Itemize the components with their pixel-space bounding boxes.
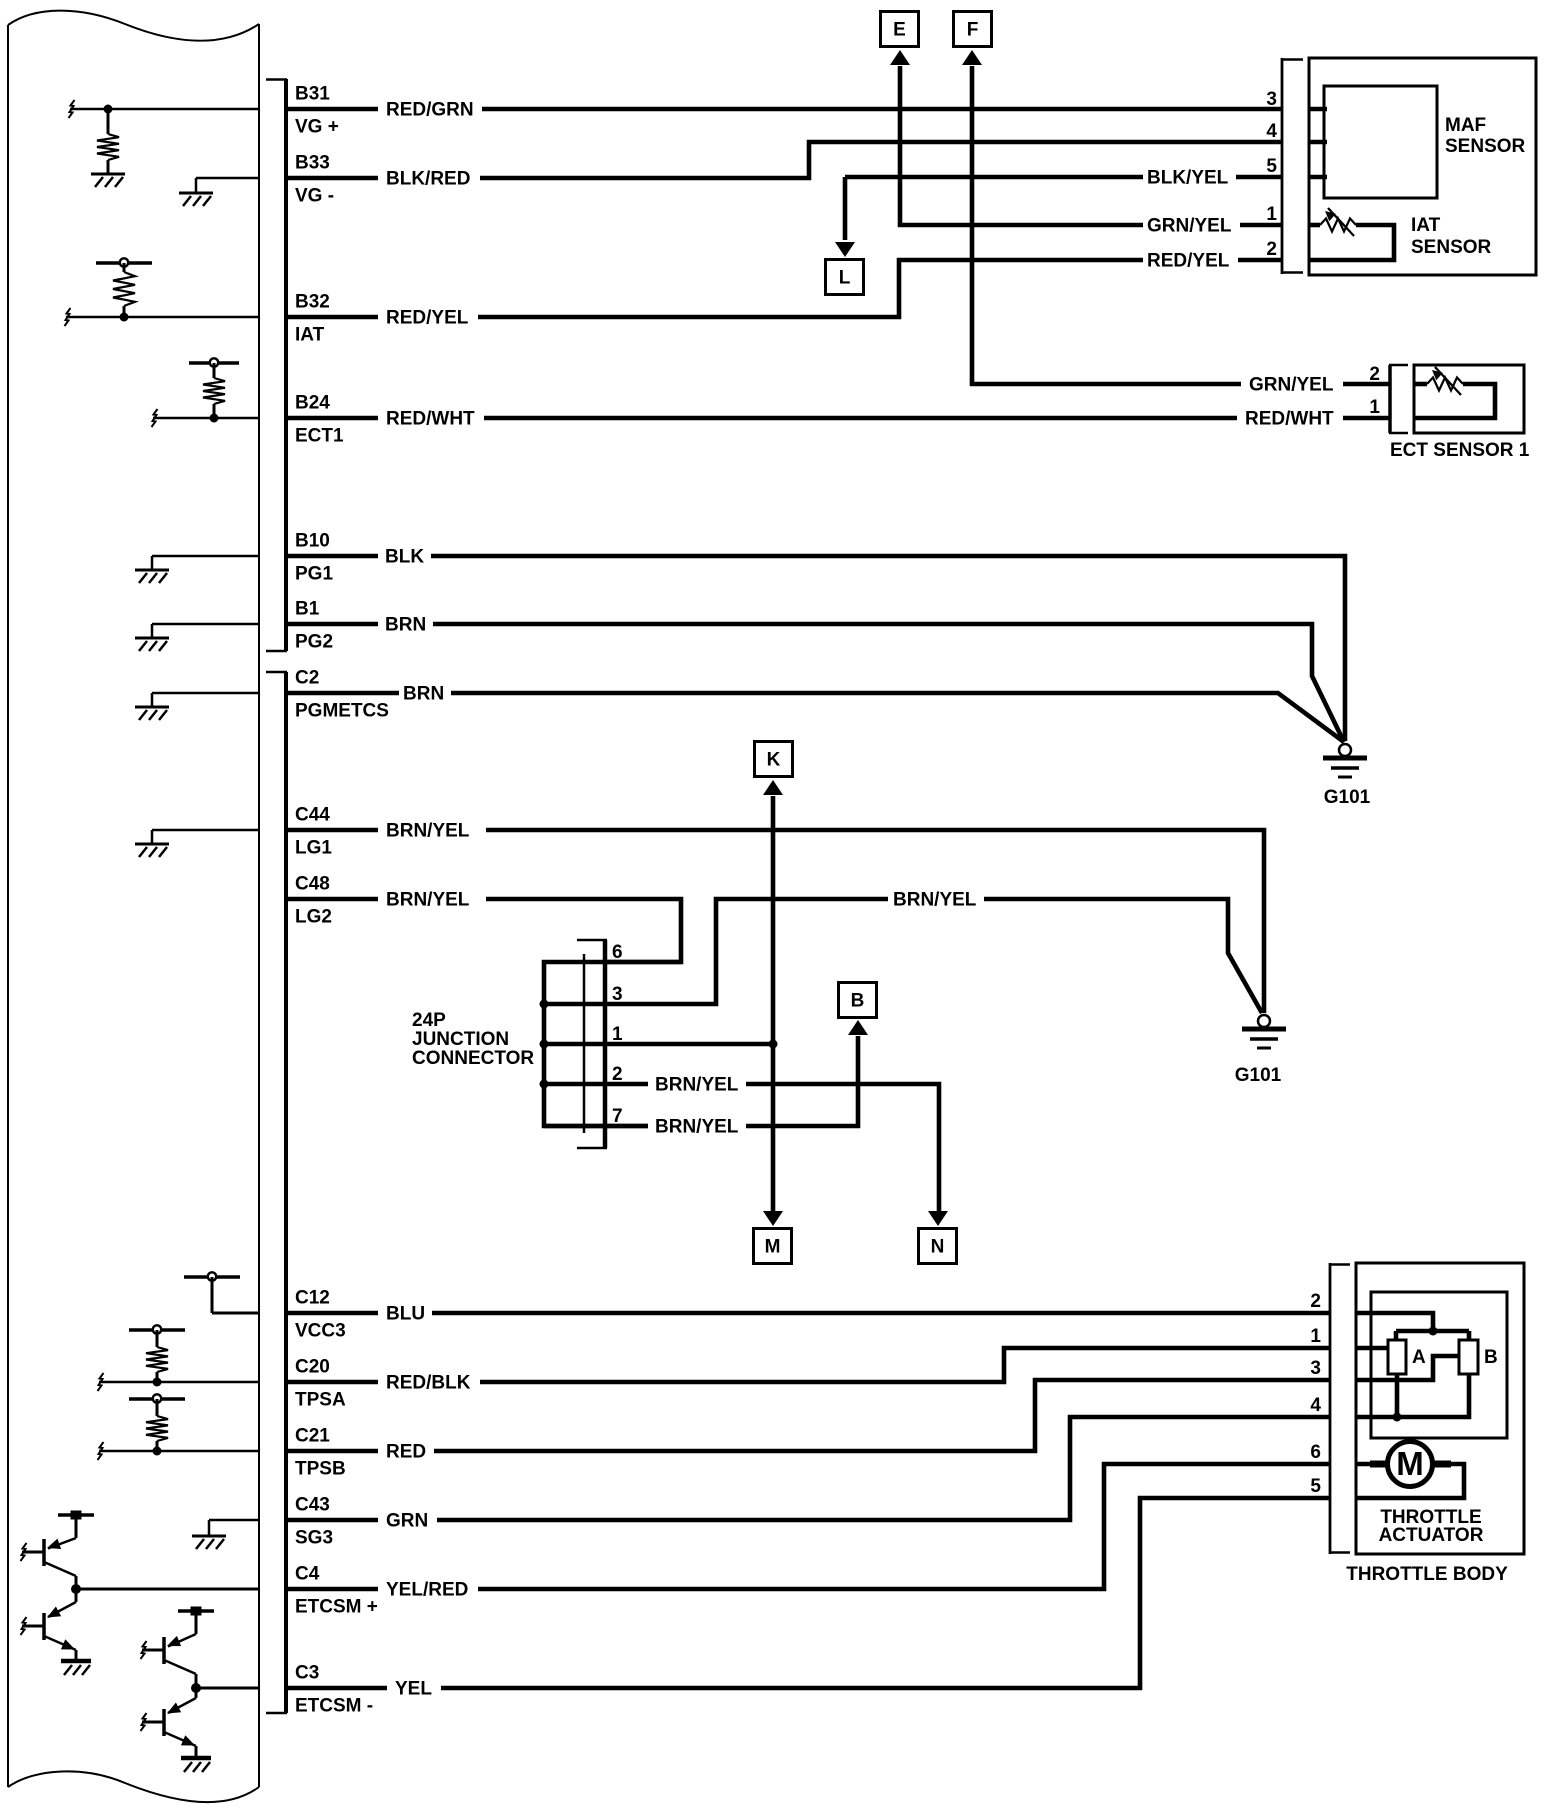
svg-text:BRN/YEL: BRN/YEL (655, 1075, 739, 1096)
wire BLK B10 to G101 (431, 556, 1345, 741)
arrow into connector E (890, 50, 910, 65)
label RED/WHT (386, 409, 475, 430)
TB pin 2 wire to sensor top (1356, 1313, 1433, 1331)
svg-text:ETCSM -: ETCSM - (295, 1696, 373, 1717)
ground on PG2 line (inside ECM) (152, 624, 258, 637)
wire GRN/YEL segment to ECT pin 2 (1343, 382, 1390, 387)
pin B1 / PG2 labels (295, 599, 333, 653)
TP sensor top rail (1396, 1327, 1469, 1342)
svg-text:C44: C44 (295, 805, 330, 826)
junction pin 2 number (612, 1064, 623, 1085)
wire BLU stub at C12 (287, 1311, 378, 1316)
svg-text:3: 3 (1266, 89, 1277, 110)
connector K box (755, 742, 793, 777)
svg-text:YEL: YEL (395, 1679, 432, 1700)
wire RED/WHT segment to ECT pin 1 (1343, 416, 1390, 421)
MAF pin 4 number (1266, 121, 1277, 142)
junction bus dot at pin 1 (540, 1040, 549, 1049)
pin C2 / PGMETCS labels (295, 668, 389, 722)
connector N box (919, 1229, 957, 1264)
ground (PGMETCS internal) (135, 707, 169, 720)
svg-text:SENSOR: SENSOR (1411, 237, 1492, 258)
throttle body connector bracket (1329, 1263, 1350, 1554)
svg-text:RED/YEL: RED/YEL (1147, 251, 1230, 272)
TB pin 4 number (1310, 1395, 1321, 1416)
ground (B33 internal) (179, 193, 213, 206)
ground on PG1 line (inside ECM) (152, 556, 258, 569)
wire RED/YEL stub at B32 (287, 315, 378, 320)
label 24P JUNCTION CONNECTOR (412, 1010, 534, 1069)
label GRN/YEL (ECT) (1249, 375, 1334, 396)
svg-text:1: 1 (1266, 204, 1277, 225)
resistor to ground on VG+ line (inside ECM) (69, 100, 259, 173)
svg-text:RED/YEL: RED/YEL (386, 308, 469, 329)
svg-text:B1: B1 (295, 599, 320, 620)
svg-text:L: L (839, 268, 851, 289)
ground on VG- line (inside ECM) (196, 178, 258, 192)
label RED/GRN (386, 100, 474, 121)
svg-text:6: 6 (1310, 1442, 1321, 1463)
ground G101 (upper) (1323, 744, 1371, 808)
connector L box (826, 260, 864, 295)
svg-text:LG2: LG2 (295, 907, 332, 928)
TB pin 3 wire to potentiometer B (1356, 1356, 1459, 1380)
wire GRN/YEL segment to MAF pin 1 (1240, 223, 1281, 228)
svg-text:RED/WHT: RED/WHT (1245, 409, 1334, 430)
MAF sensor connector bracket (1281, 58, 1303, 274)
wire RED/BLK stub at C20 (287, 1380, 378, 1385)
arrow into connector K (763, 780, 783, 795)
pin C48 / LG2 labels (295, 874, 332, 928)
wire YEL stub at C3 (287, 1686, 387, 1691)
label ECT SENSOR 1 (1390, 440, 1530, 461)
svg-text:K: K (767, 750, 781, 771)
svg-text:PG1: PG1 (295, 564, 333, 585)
svg-text:C4: C4 (295, 1564, 320, 1585)
svg-text:GRN: GRN (386, 1511, 428, 1532)
ground (PG2 internal) (135, 638, 169, 651)
label YEL/RED (386, 1580, 468, 1601)
svg-text:SENSOR: SENSOR (1445, 136, 1526, 157)
svg-text:RED/GRN: RED/GRN (386, 100, 474, 121)
svg-text:BRN: BRN (385, 615, 426, 636)
wire RED/GRN stub at B31 (287, 107, 378, 112)
svg-text:4: 4 (1310, 1395, 1321, 1416)
svg-text:B24: B24 (295, 393, 330, 414)
label BLU (386, 1304, 425, 1325)
label A (1412, 1347, 1426, 1368)
svg-text:TPSB: TPSB (295, 1459, 346, 1480)
ECT sensor box (1414, 365, 1524, 433)
arrow into connector M (763, 1211, 783, 1226)
TB pin 1 number (1310, 1326, 1321, 1347)
wire BRN/YEL pin 7 to connector B (746, 1036, 858, 1126)
wire RED/BLK C20 to throttle body pin 1 (480, 1348, 1330, 1382)
wire BLK stub at B10 (287, 554, 378, 559)
label THROTTLE ACTUATOR (1379, 1507, 1484, 1546)
MAF pin 4 stub (1308, 140, 1327, 145)
label BRN/YEL (pin 7) (655, 1117, 739, 1138)
svg-text:PG2: PG2 (295, 632, 333, 653)
pin B32 / IAT labels (295, 292, 330, 346)
svg-text:IAT: IAT (1411, 215, 1441, 236)
wire BRN/YEL stub at C48 (287, 897, 378, 902)
label BLK/RED (386, 169, 470, 190)
wire BRN/YEL pin 2 to connector N (746, 1084, 939, 1212)
TB pin 1 wire to potentiometer A (1356, 1346, 1389, 1351)
svg-text:2: 2 (1369, 364, 1380, 385)
wire BLK/RED stub at B33 (287, 176, 378, 181)
TB pin 5 wire to motor (1356, 1464, 1464, 1498)
pin B10 / PG1 labels (295, 531, 333, 585)
svg-text:A: A (1412, 1347, 1426, 1368)
wire RED/WHT B24 to ECT sensor (484, 416, 1237, 421)
potentiometer B element (1459, 1340, 1478, 1374)
svg-text:M: M (765, 1237, 781, 1258)
svg-text:TPSA: TPSA (295, 1390, 346, 1411)
wire BLK/YEL to MAF pin 5 with drop to connector L (845, 177, 1143, 240)
label BRN/YEL (C44) (386, 821, 470, 842)
connector E box (881, 12, 919, 47)
svg-text:2: 2 (1266, 239, 1277, 260)
wire GRN C43 to throttle body pin 4 (437, 1417, 1330, 1520)
arrow into connector F (962, 50, 982, 65)
svg-text:CONNECTOR: CONNECTOR (412, 1048, 534, 1069)
svg-text:BLK: BLK (385, 547, 424, 568)
TB pin 4 wire to sensor bottom rail (1356, 1374, 1469, 1422)
svg-text:LG1: LG1 (295, 838, 332, 859)
svg-text:C12: C12 (295, 1288, 330, 1309)
svg-text:B: B (851, 991, 865, 1012)
wire BRN B1 to G101 (433, 624, 1344, 742)
pin C4 / ETCSM+ labels (295, 1564, 378, 1618)
svg-text:B10: B10 (295, 531, 330, 552)
label RED (386, 1442, 426, 1463)
svg-text:C48: C48 (295, 874, 330, 895)
junction bus dot at pin 3 (540, 1000, 549, 1009)
svg-text:N: N (931, 1237, 945, 1258)
junction pin 3 wire to BRN/YEL net (544, 899, 888, 1004)
ground (LG1 internal) (135, 844, 169, 857)
arrow into connector B (848, 1020, 868, 1035)
junction dot K line (769, 1040, 778, 1049)
wire GRN/YEL from F to ECT sensor pin 2 (972, 66, 1241, 384)
wire BRN stub at C2 (287, 691, 399, 696)
svg-text:C2: C2 (295, 668, 319, 689)
TB pin 2 number (1310, 1291, 1321, 1312)
svg-text:B33: B33 (295, 153, 330, 174)
ground (B31 internal resistor) (91, 174, 125, 187)
label MAF SENSOR (1445, 115, 1526, 157)
svg-text:BRN/YEL: BRN/YEL (893, 890, 977, 911)
svg-text:SG3: SG3 (295, 1528, 333, 1549)
ECT pin 2 number (1369, 364, 1380, 385)
IAT thermistor arrow (1325, 208, 1354, 236)
supply tap on VCC3 line (inside ECM) (184, 1272, 258, 1313)
wire RED/GRN B31 to MAF pin 3 (482, 107, 1281, 112)
svg-text:1: 1 (1369, 397, 1380, 418)
throttle motor M (1370, 1442, 1451, 1487)
svg-text:1: 1 (1310, 1326, 1321, 1347)
24P junction connector symbol (577, 940, 607, 1148)
label BRN (385, 615, 426, 636)
junction pin 3 number (612, 984, 623, 1005)
MAF pin 5 number (1266, 156, 1277, 177)
svg-text:IAT: IAT (295, 325, 325, 346)
wire BRN/YEL stub at C44 (287, 828, 378, 833)
pull-up resistor on ECT1 line (inside ECM) (152, 358, 259, 427)
wire BLK/YEL segment to MAF pin 5 (1236, 175, 1281, 180)
svg-text:GRN/YEL: GRN/YEL (1147, 216, 1232, 237)
pin B24 / ECT1 labels (295, 393, 344, 447)
label BLK (385, 547, 424, 568)
svg-text:BRN/YEL: BRN/YEL (655, 1117, 739, 1138)
svg-text:C20: C20 (295, 1357, 330, 1378)
MAF pin 3 stub (1308, 107, 1327, 112)
svg-text:4: 4 (1266, 121, 1277, 142)
junction pin 7 stub (544, 1124, 648, 1129)
TB pin 6 number (1310, 1442, 1321, 1463)
ECM connector bracket B (pins B31-B1) (266, 79, 287, 651)
svg-text:RED/BLK: RED/BLK (386, 1373, 471, 1394)
wire RED C21 to throttle body pin 3 (434, 1380, 1330, 1451)
svg-text:MAF: MAF (1445, 115, 1486, 136)
wire BLK/RED B33 to MAF pin 4 (jog up at x=809) (480, 142, 1281, 178)
wire YEL C3 to throttle body pin 5 (441, 1498, 1330, 1688)
TB pin 5 number (1310, 1476, 1321, 1497)
label YEL (395, 1679, 432, 1700)
svg-text:B31: B31 (295, 84, 330, 105)
svg-text:B32: B32 (295, 292, 330, 313)
junction pin 6 number (612, 942, 623, 963)
wire GRN/YEL from E to MAF pin 1 (900, 66, 1143, 225)
svg-text:E: E (893, 20, 906, 41)
pin C20 / TPSA labels (295, 1357, 346, 1411)
junction connector bus (left side) (544, 962, 681, 1126)
label THROTTLE BODY (1346, 1564, 1508, 1585)
MAF sensor outer box (1309, 58, 1536, 275)
label BLK/YEL (1147, 168, 1229, 189)
svg-text:ECT SENSOR 1: ECT SENSOR 1 (1390, 440, 1530, 461)
pin C44 / LG1 labels (295, 805, 332, 859)
svg-text:THROTTLE BODY: THROTTLE BODY (1346, 1564, 1508, 1585)
svg-text:M: M (1396, 1445, 1424, 1482)
svg-text:G101: G101 (1235, 1065, 1282, 1086)
ECM module body (torn-edge outline) (8, 11, 259, 1803)
pin C21 / TPSB labels (295, 1426, 346, 1480)
junction pin 1 number (612, 1024, 623, 1045)
svg-text:B: B (1484, 1347, 1498, 1368)
junction pin 7 number (612, 1106, 623, 1127)
svg-text:ACTUATOR: ACTUATOR (1379, 1525, 1484, 1546)
ground on SG3 line (inside ECM) (209, 1520, 258, 1535)
label RED/YEL (386, 308, 469, 329)
wire BRN/YEL C48 to junction connector pin 6 (486, 899, 681, 962)
MAF pin 3 number (1266, 89, 1277, 110)
svg-text:RED/WHT: RED/WHT (386, 409, 475, 430)
label BRN/YEL (pin 2) (655, 1075, 739, 1096)
wire YEL/RED stub at C4 (287, 1587, 378, 1592)
ECT pin 1 number (1369, 397, 1380, 418)
wire RED stub at C21 (287, 1449, 378, 1454)
svg-text:ECT1: ECT1 (295, 426, 344, 447)
ECM connector bracket C (pins C2-C3) (266, 672, 287, 1713)
label BRN/YEL (C48) (386, 890, 470, 911)
arrow into connector L (835, 242, 855, 257)
pull-up resistor on TPSB line (inside ECM) (98, 1394, 259, 1460)
label IAT SENSOR (1411, 215, 1492, 258)
ground (PG1 internal) (135, 570, 169, 583)
label RED/YEL (right) (1147, 251, 1230, 272)
wire BLU C12 to throttle body pin 2 (432, 1311, 1330, 1316)
label RED/WHT (ECT) (1245, 409, 1334, 430)
ground (SG3 internal) (192, 1536, 226, 1549)
svg-text:RED: RED (386, 1442, 426, 1463)
ground on PGMETCS line (inside ECM) (152, 693, 258, 706)
junction pin 2 stub (544, 1082, 648, 1087)
label GRN (386, 1511, 428, 1532)
ECT thermistor element (1413, 378, 1495, 419)
svg-text:5: 5 (1310, 1476, 1321, 1497)
pin B33 / VG- labels (295, 153, 334, 207)
svg-text:C21: C21 (295, 1426, 330, 1447)
wire BRN C2 to G101 (451, 693, 1344, 742)
svg-text:VCC3: VCC3 (295, 1321, 346, 1342)
throttle body outer box (1356, 1263, 1524, 1554)
pin B31 / VG+ labels (295, 84, 339, 138)
svg-text:GRN/YEL: GRN/YEL (1249, 375, 1334, 396)
wire RED/YEL segment to MAF pin 2 (1238, 258, 1281, 263)
wire RED/YEL B32 jog up to MAF pin 2 level (478, 260, 1143, 317)
svg-text:5: 5 (1266, 156, 1277, 177)
svg-text:2: 2 (1310, 1291, 1321, 1312)
MAF pin 2 number (1266, 239, 1277, 260)
svg-text:BLK/YEL: BLK/YEL (1147, 168, 1229, 189)
svg-text:YEL/RED: YEL/RED (386, 1580, 468, 1601)
junction pin 1 wire to K line (544, 1042, 773, 1047)
output driver transistors Q3/Q4 (ETCSM-, inside ECM) (141, 1607, 259, 1773)
TP sensor inner box (1371, 1292, 1507, 1438)
svg-text:F: F (967, 20, 979, 41)
pull-up resistor on IAT line (inside ECM) (65, 258, 259, 326)
label BRN/YEL (to G101) (893, 890, 977, 911)
wire BRN stub at B1 (287, 622, 378, 627)
pin C3 / ETCSM- labels (295, 1663, 373, 1717)
wire GRN stub at C43 (287, 1518, 378, 1523)
label GRN/YEL (1147, 216, 1232, 237)
svg-text:JUNCTION: JUNCTION (412, 1029, 509, 1050)
connector F box (954, 12, 992, 47)
svg-text:VG +: VG + (295, 117, 339, 138)
svg-text:BLK/RED: BLK/RED (386, 169, 470, 190)
potentiometer A element (1388, 1340, 1406, 1374)
TB pin 3 number (1310, 1358, 1321, 1379)
wire RED/WHT stub at B24 (287, 416, 378, 421)
MAF pin 1 number (1266, 204, 1277, 225)
TB pin 6 wire to motor (1356, 1462, 1388, 1467)
wire BRN/YEL to G101 lower (984, 899, 1262, 1013)
svg-text:BRN/YEL: BRN/YEL (386, 890, 470, 911)
label B (1484, 1347, 1498, 1368)
junction bus dot at pin 2 (540, 1080, 549, 1089)
wire BRN/YEL C44 to G101 lower (486, 830, 1264, 1013)
label RED/BLK (386, 1373, 471, 1394)
svg-text:C3: C3 (295, 1663, 319, 1684)
svg-text:C43: C43 (295, 1495, 330, 1516)
label BRN (C2) (403, 684, 444, 705)
output driver transistors Q1/Q2 (ETCSM+, inside ECM) (21, 1511, 259, 1676)
svg-text:ETCSM +: ETCSM + (295, 1597, 378, 1618)
ground on LG1 line (inside ECM) (152, 830, 258, 843)
svg-text:24P: 24P (412, 1010, 446, 1031)
svg-text:BRN/YEL: BRN/YEL (386, 821, 470, 842)
svg-text:6: 6 (612, 942, 623, 963)
pull-up resistor on TPSA line (inside ECM) (98, 1325, 259, 1391)
svg-text:3: 3 (1310, 1358, 1321, 1379)
connector B box (839, 983, 877, 1018)
wire K to M (vertical trunk) (771, 796, 776, 1212)
svg-text:PGMETCS: PGMETCS (295, 701, 389, 722)
pin C43 / SG3 labels (295, 1495, 333, 1549)
MAF sensing element box (1324, 86, 1437, 198)
wire YEL/RED C4 to throttle body pin 6 (478, 1464, 1330, 1589)
connector M box (754, 1229, 792, 1264)
svg-text:BLU: BLU (386, 1304, 425, 1325)
IAT sensor element (thermistor loop pins 1-2) (1308, 219, 1394, 261)
ground G101 (lower) (1235, 1015, 1286, 1086)
pin C12 / VCC3 labels (295, 1288, 346, 1342)
ECT sensor connector bracket (1389, 365, 1408, 433)
svg-text:G101: G101 (1324, 787, 1371, 808)
MAF pin 5 stub (1308, 175, 1327, 180)
svg-text:VG -: VG - (295, 186, 334, 207)
arrow into connector N (928, 1211, 948, 1226)
svg-text:BRN: BRN (403, 684, 444, 705)
ECT thermistor arrow (1432, 367, 1461, 395)
